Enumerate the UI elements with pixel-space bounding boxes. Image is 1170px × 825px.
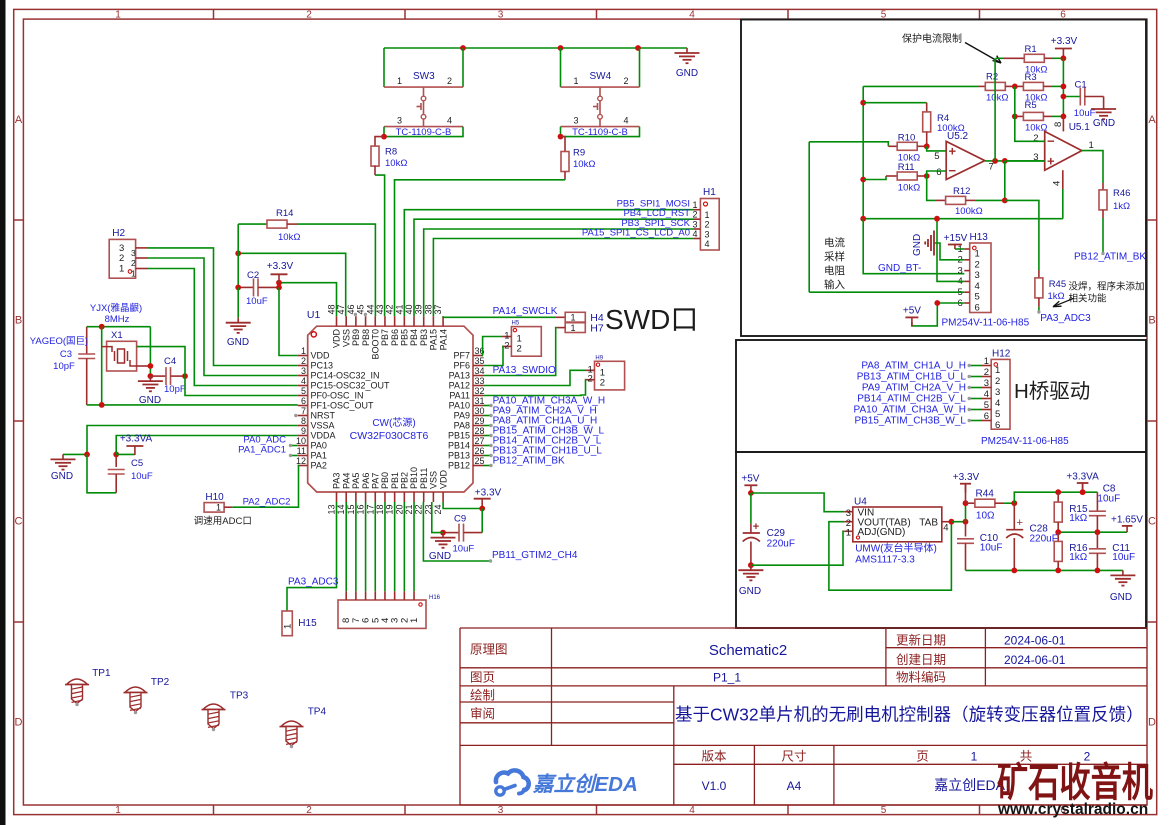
wire R2 left column [862, 86, 864, 218]
junction [1061, 55, 1067, 61]
svg-text:R46: R46 [1113, 188, 1130, 199]
power +3.3VA [120, 434, 153, 456]
svg-text:PB6: PB6 [390, 329, 400, 346]
net label PB11_GTIM2_CH4 [423, 502, 577, 563]
label ADC note [194, 516, 252, 527]
svg-text:H16: H16 [429, 595, 441, 601]
svg-text:R9: R9 [573, 148, 585, 159]
svg-text:1: 1 [975, 249, 980, 260]
svg-text:2: 2 [984, 367, 989, 378]
svg-text:32: 32 [475, 386, 485, 396]
power +5V [741, 474, 759, 495]
wire +1.65V row [1058, 531, 1127, 533]
wire H16 [374, 502, 376, 591]
svg-text:PB4: PB4 [409, 329, 419, 346]
svg-text:PB1: PB1 [390, 472, 400, 489]
junction [924, 173, 930, 179]
svg-text:C3: C3 [60, 349, 72, 360]
svg-text:3: 3 [692, 220, 697, 230]
svg-text:PA4: PA4 [341, 473, 351, 489]
svg-text:电流: 电流 [824, 236, 845, 249]
svg-text:28: 28 [475, 426, 485, 436]
junction [1002, 198, 1008, 204]
connector H15 [282, 611, 317, 636]
watermark url [997, 801, 1148, 818]
resistor R9 [395, 137, 596, 317]
svg-text:PA10_ATIM_CH3A_W_H: PA10_ATIM_CH3A_W_H [854, 404, 966, 415]
svg-text:10uF: 10uF [1112, 552, 1135, 563]
svg-text:41: 41 [394, 304, 404, 314]
svg-text:1: 1 [984, 356, 989, 367]
op-amp U5.1 [1033, 122, 1094, 186]
resistor R46 [1099, 183, 1130, 255]
wire VDD pin1 [279, 287, 298, 355]
svg-text:VSSA: VSSA [311, 421, 335, 431]
capacitor C4 [150, 356, 185, 395]
svg-text:3: 3 [995, 387, 1000, 398]
svg-text:创建日期: 创建日期 [896, 653, 946, 667]
svg-text:C: C [15, 516, 23, 528]
svg-text:VSS: VSS [341, 329, 351, 347]
svg-text:PA14: PA14 [438, 329, 448, 350]
junction [1095, 529, 1101, 535]
wire +3.3VA link [116, 453, 135, 455]
wire PA15_SPI1_CS_LCD_A0 [433, 227, 694, 316]
resistor R11 [863, 162, 927, 194]
junction [1011, 568, 1017, 574]
svg-text:PA1: PA1 [311, 451, 327, 461]
wire C3 PF1 [87, 404, 298, 406]
connector H1 [692, 187, 719, 250]
svg-text:PA7: PA7 [370, 473, 380, 489]
svg-text:18: 18 [375, 504, 385, 514]
svg-text:3: 3 [131, 248, 136, 258]
svg-text:A: A [1148, 114, 1156, 126]
svg-text:5: 5 [975, 292, 980, 303]
junction [1080, 489, 1086, 495]
svg-text:PF1-OSC_OUT: PF1-OSC_OUT [311, 401, 375, 411]
regulator U4 AMS1117-3.3 [844, 497, 951, 566]
svg-text:4: 4 [995, 398, 1000, 409]
svg-text:5: 5 [984, 400, 989, 411]
svg-text:3: 3 [397, 116, 402, 126]
svg-text:3: 3 [705, 230, 710, 240]
svg-text:R3: R3 [1025, 72, 1037, 83]
svg-text:1: 1 [846, 528, 851, 539]
ground GND C1 [1091, 104, 1116, 129]
svg-text:34: 34 [475, 366, 485, 376]
svg-text:PB11: PB11 [419, 468, 429, 489]
junction [235, 250, 241, 256]
connector H7 [557, 322, 604, 334]
svg-text:10kΩ: 10kΩ [898, 183, 920, 194]
wire gnd branch [237, 224, 239, 287]
test point TP2 [124, 677, 170, 714]
svg-text:1kΩ: 1kΩ [1069, 513, 1088, 524]
svg-text:SWD口: SWD口 [605, 304, 698, 335]
resistor R45 [1035, 270, 1066, 314]
svg-text:2: 2 [306, 805, 312, 816]
ground GND top [675, 48, 700, 79]
svg-text:嘉立创EDA: 嘉立创EDA [934, 777, 1005, 793]
svg-text:调速用ADC口: 调速用ADC口 [194, 516, 252, 527]
junction [479, 506, 485, 512]
wire U5.2 pin5 [927, 146, 947, 151]
label H-bridge title [1014, 380, 1090, 403]
svg-text:PB5: PB5 [400, 329, 410, 346]
svg-text:+3.3V: +3.3V [267, 261, 294, 272]
label reviewed-by [470, 706, 495, 721]
svg-text:3: 3 [975, 270, 980, 281]
svg-text:TP2: TP2 [151, 677, 170, 688]
svg-text:H15: H15 [298, 618, 317, 629]
power +3.3V box3 [953, 472, 980, 503]
svg-text:5: 5 [934, 151, 939, 162]
junction [1012, 114, 1018, 120]
svg-text:4: 4 [624, 116, 629, 126]
svg-text:1: 1 [692, 200, 697, 210]
junction [1011, 500, 1017, 506]
wire PA2_ADC2 [232, 466, 298, 508]
svg-text:PA13_SWDIO: PA13_SWDIO [493, 365, 556, 376]
svg-text:PA15: PA15 [429, 329, 439, 350]
wire H2.1 PC15 [148, 269, 298, 386]
svg-text:25: 25 [475, 456, 485, 466]
svg-text:C1: C1 [1075, 80, 1087, 91]
svg-text:R11: R11 [898, 162, 915, 173]
svg-text:B: B [15, 315, 22, 327]
arrow annotation [965, 43, 1001, 64]
wire VSS pin23 gnd [432, 502, 443, 533]
svg-text:ADJ(GND): ADJ(GND) [858, 527, 906, 538]
svg-text:1: 1 [119, 264, 124, 275]
junction [635, 45, 641, 51]
capacitor C8 [1089, 484, 1120, 533]
svg-text:19: 19 [385, 504, 395, 514]
wire crystal right [149, 327, 151, 376]
svg-text:33: 33 [475, 376, 485, 386]
wire VSSA [63, 426, 298, 455]
resistor R44 [966, 489, 1015, 522]
connector H10 [204, 492, 232, 513]
svg-text:NRST: NRST [311, 411, 336, 421]
svg-text:AMS1117-3.3: AMS1117-3.3 [855, 555, 915, 566]
svg-text:1kΩ: 1kΩ [1048, 291, 1065, 302]
svg-text:A4: A4 [787, 779, 802, 793]
net label PB14_ATIM_CH2B_V_L [483, 435, 602, 447]
svg-text:PB15_ATIM_CH3B_W_L: PB15_ATIM_CH3B_W_L [854, 415, 966, 426]
svg-text:R44: R44 [976, 489, 995, 500]
svg-text:矿石收音机: 矿石收音机 [997, 761, 1153, 805]
svg-text:C5: C5 [131, 458, 143, 469]
net label PB12_ATIM_BK [483, 455, 565, 467]
svg-text:图页: 图页 [470, 671, 495, 685]
svg-text:3: 3 [301, 366, 306, 376]
wire H16 [413, 502, 415, 591]
wire C9 right [481, 509, 483, 533]
svg-text:4: 4 [943, 523, 948, 534]
svg-text:+5V: +5V [741, 474, 759, 485]
svg-text:www.crystalradio.cn: www.crystalradio.cn [997, 801, 1148, 818]
power +3.3VA box3 [1066, 471, 1099, 492]
svg-text:C2: C2 [247, 270, 259, 281]
wire H7 PA13 [483, 328, 557, 376]
capacitor C28 [1006, 503, 1058, 570]
wire H16 [345, 502, 347, 591]
wire VDD pin48 +3.3V [279, 283, 337, 317]
svg-text:UMW(友台半导体): UMW(友台半导体) [855, 542, 937, 555]
junction [235, 285, 241, 291]
wire gnd rail [966, 569, 1123, 571]
svg-text:4: 4 [447, 116, 452, 126]
svg-text:10kΩ: 10kΩ [573, 159, 595, 170]
svg-text:U4: U4 [854, 497, 867, 508]
svg-text:10uF: 10uF [1097, 494, 1120, 505]
resistor R10 [809, 133, 927, 164]
svg-text:C9: C9 [454, 514, 466, 525]
junction [963, 519, 969, 525]
svg-text:6: 6 [984, 411, 989, 422]
resistor R16 [1054, 532, 1088, 570]
svg-text:−: − [1047, 134, 1055, 149]
wire +5V to VIN [751, 493, 844, 512]
svg-text:38: 38 [423, 304, 433, 314]
wire PA3 H15 [287, 502, 337, 611]
wire PB4_LCD_RST [414, 208, 694, 316]
label sheet-type [470, 643, 508, 657]
svg-text:PA9: PA9 [454, 411, 470, 421]
test point TP3 [202, 691, 249, 732]
svg-text:40: 40 [404, 304, 414, 314]
svg-text:PA1_ADC1: PA1_ADC1 [238, 444, 286, 455]
wire R12 link [1004, 161, 1006, 201]
junction [860, 100, 866, 106]
label sheet-name [709, 642, 787, 659]
svg-text:U5.2: U5.2 [947, 131, 969, 142]
switch SW4 [561, 48, 640, 138]
wire H9.1 PA12 [483, 370, 586, 385]
ground GND C29 [738, 565, 763, 597]
net label PA10_ATIM_CH3A_W_H [854, 404, 981, 415]
power +1.65V [1111, 514, 1143, 532]
svg-text:21: 21 [404, 504, 414, 514]
junction [963, 500, 969, 506]
svg-text:4: 4 [692, 229, 697, 239]
net label PA8_ATIM_CH1A_U_H [483, 415, 597, 427]
svg-text:物料编码: 物料编码 [896, 670, 946, 685]
wire H13.6 +5V [912, 303, 964, 326]
wire GND_BT- to H13 [863, 219, 964, 274]
capacitor C9 [443, 514, 482, 555]
net label PA0_ADC [243, 434, 297, 447]
svg-text:8: 8 [1053, 122, 1064, 127]
svg-text:输入: 输入 [824, 278, 845, 291]
svg-text:2: 2 [131, 258, 136, 268]
junction [992, 158, 998, 164]
svg-text:PC13: PC13 [311, 361, 334, 371]
wire +3.3VA row [1014, 492, 1097, 503]
svg-text:2: 2 [624, 76, 629, 86]
junction [860, 216, 866, 222]
svg-text:YJX(雅晶齦): YJX(雅晶齦) [90, 302, 142, 314]
wire VDDA [116, 436, 298, 455]
svg-text:R2: R2 [986, 72, 998, 83]
svg-text:10uF: 10uF [980, 543, 1003, 554]
svg-text:1: 1 [115, 10, 121, 21]
svg-text:PA6: PA6 [361, 473, 371, 489]
junction [1002, 158, 1008, 164]
svg-text:17: 17 [365, 504, 375, 514]
svg-text:3: 3 [958, 265, 963, 276]
resistor R15 [1054, 492, 1088, 532]
wire U5.1 pin2 [1015, 86, 1045, 141]
junction [558, 134, 564, 140]
title block grid [460, 628, 1147, 805]
svg-text:47: 47 [336, 304, 346, 314]
svg-text:+3.3VA: +3.3VA [1066, 471, 1099, 482]
svg-text:PM254V-11-06-H85: PM254V-11-06-H85 [942, 318, 1030, 329]
svg-text:采样: 采样 [824, 250, 845, 263]
svg-text:版本: 版本 [701, 750, 727, 764]
svg-text:+: + [1047, 153, 1055, 168]
svg-text:+15V: +15V [944, 233, 968, 244]
label protection note [902, 32, 962, 45]
svg-text:PA8: PA8 [454, 421, 470, 431]
svg-text:10uF: 10uF [131, 471, 153, 482]
junction [748, 490, 754, 496]
svg-text:PA0: PA0 [311, 441, 327, 451]
svg-text:1: 1 [397, 76, 402, 86]
svg-text:PA15_SPI1_CS_LCD_A0: PA15_SPI1_CS_LCD_A0 [582, 227, 690, 238]
svg-text:R8: R8 [385, 147, 397, 158]
svg-text:V1.0: V1.0 [702, 779, 727, 793]
svg-text:H2: H2 [112, 228, 125, 239]
svg-text:1: 1 [216, 503, 221, 513]
svg-text:+: + [1017, 517, 1023, 529]
junction [182, 373, 188, 379]
svg-text:14: 14 [336, 504, 346, 514]
svg-text:1: 1 [1089, 140, 1094, 151]
svg-text:5: 5 [301, 386, 306, 396]
label update-date [896, 633, 1066, 648]
svg-text:TAB: TAB [919, 518, 938, 529]
svg-text:PA3_ADC3: PA3_ADC3 [1040, 313, 1091, 324]
svg-text:+3.3V: +3.3V [475, 488, 502, 499]
svg-text:GND: GND [1110, 592, 1132, 603]
svg-text:9: 9 [301, 426, 306, 436]
svg-text:1: 1 [131, 269, 136, 279]
net label PB14_ATIM_CH2B_V_L [857, 393, 981, 404]
svg-text:PA9_ATIM_CH2A_V_H: PA9_ATIM_CH2A_V_H [862, 382, 966, 393]
svg-text:GND: GND [739, 586, 761, 597]
label SWD title [605, 304, 698, 335]
svg-text:5: 5 [881, 805, 887, 816]
svg-text:CW32F030C8T6: CW32F030C8T6 [350, 430, 429, 442]
op-amp U1 MCU CW32F030C8T6 [294, 304, 484, 514]
net label PA9_ATIM_CH2A_V_H [483, 405, 597, 417]
junction [381, 134, 387, 140]
wire ADJ gnd [751, 531, 844, 565]
svg-text:C: C [1148, 516, 1156, 528]
svg-text:13: 13 [327, 504, 337, 514]
svg-text:3: 3 [498, 10, 504, 21]
resistor R12 [927, 176, 1005, 217]
svg-text:29: 29 [475, 416, 485, 426]
connector H16 [338, 591, 441, 628]
svg-text:45: 45 [356, 304, 366, 314]
svg-text:PB14: PB14 [448, 441, 470, 451]
net label PA8_ATIM_CH1A_U_H [861, 360, 981, 371]
wire H2.2 PC14 [148, 258, 298, 376]
svg-text:PB2: PB2 [400, 472, 410, 489]
net section box (power) [736, 452, 1146, 628]
svg-text:+3.3V: +3.3V [1051, 36, 1078, 47]
svg-text:P1_1: P1_1 [713, 671, 741, 685]
svg-text:R5: R5 [1025, 100, 1037, 111]
junction [84, 452, 90, 458]
junction [1061, 114, 1067, 120]
svg-text:原理图: 原理图 [470, 643, 508, 657]
svg-text:PF6: PF6 [453, 361, 470, 371]
svg-text:PB14_ATIM_CH2B_V_L: PB14_ATIM_CH2B_V_L [857, 393, 966, 404]
svg-text:1: 1 [115, 805, 121, 816]
svg-text:3: 3 [498, 805, 504, 816]
svg-text:10kΩ: 10kΩ [385, 158, 407, 169]
label project title [675, 705, 1144, 725]
svg-text:TP4: TP4 [308, 707, 327, 718]
wire VSS pin47 gnd [238, 253, 346, 316]
net label PB13_ATIM_CH1B_U_L [483, 445, 602, 457]
junction [860, 177, 866, 183]
svg-text:2: 2 [600, 378, 605, 389]
svg-text:更新日期: 更新日期 [896, 633, 946, 648]
svg-text:+5V: +5V [903, 306, 921, 317]
ground GND C2 [226, 287, 251, 348]
svg-text:PB13_ATIM_CH1B_U_L: PB13_ATIM_CH1B_U_L [857, 371, 967, 382]
wire TAB out [951, 521, 965, 523]
svg-text:2: 2 [504, 341, 509, 352]
svg-text:2: 2 [447, 76, 452, 86]
svg-text:H12: H12 [992, 349, 1011, 360]
svg-text:PA3: PA3 [332, 473, 342, 489]
svg-text:1: 1 [571, 323, 576, 333]
svg-text:GND: GND [1093, 118, 1115, 129]
svg-text:2: 2 [517, 344, 522, 355]
ground GND rot H13 [912, 231, 964, 260]
svg-text:2: 2 [119, 253, 124, 264]
svg-text:1: 1 [301, 346, 306, 356]
svg-text:2: 2 [588, 374, 593, 385]
svg-text:+3.3VA: +3.3VA [120, 434, 153, 445]
connector H5 [502, 321, 541, 357]
svg-text:6: 6 [301, 396, 306, 406]
label page-row [470, 670, 946, 685]
junction [113, 452, 119, 458]
ground GND crystal [138, 376, 163, 406]
wire C5 gnd [87, 454, 116, 492]
net label PB15_ATIM_CH3B_W_L [854, 415, 981, 426]
svg-text:H9: H9 [595, 355, 603, 361]
connector H4 [565, 312, 604, 324]
label not soldered note [1069, 281, 1145, 305]
svg-text:页: 页 [916, 750, 929, 764]
wire +3.3V column [1062, 58, 1064, 116]
svg-text:PB12_ATIM_BK: PB12_ATIM_BK [1074, 252, 1146, 263]
svg-text:审阅: 审阅 [470, 706, 495, 721]
junction [440, 530, 446, 536]
wire H13.5 R10 [809, 142, 964, 292]
crystal X1 [102, 330, 151, 371]
